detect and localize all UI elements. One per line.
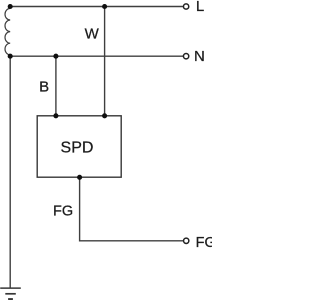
terminal L (open circle) (183, 4, 188, 9)
svg-text:FG: FG (53, 203, 73, 219)
terminal N (open circle) (183, 54, 188, 59)
wire FG: from SPD bottom down then right to terminal FG (80, 177, 183, 241)
svg-text:N: N (194, 48, 205, 65)
svg-text:SPD: SPD (61, 139, 94, 156)
wire L: top horizontal line from coil top to terminal L (10, 6, 183, 8)
junction dot: coil top / L wire (8, 4, 13, 9)
svg-text:FG: FG (196, 235, 212, 251)
svg-text:W: W (85, 25, 100, 42)
terminal FG (open circle) (184, 238, 189, 243)
inductor L1 (coil on left) (5, 8, 10, 54)
svg-text:B: B (39, 78, 49, 95)
SPD box U1 (37, 116, 121, 177)
junction dot: SPD top pin right (102, 113, 107, 118)
svg-text:L: L (196, 0, 204, 15)
junction dot: coil bottom / N wire (8, 54, 13, 59)
junction dot: SPD top pin left (53, 113, 58, 118)
junction dot: N wire / B drop (53, 54, 58, 59)
junction dot: L wire / vertical drop (102, 4, 107, 9)
wire: left vertical from coil bottom down to ground (9, 56, 11, 288)
wire: vertical drop from L wire to SPD box top (104, 7, 106, 116)
ground (earth symbol bottom-left) (0, 288, 21, 299)
junction dot: SPD bottom pin (77, 175, 82, 180)
wire B: vertical drop from N wire to SPD box top (55, 56, 57, 116)
wire N: second horizontal line from coil bottom to terminal N (10, 55, 183, 57)
